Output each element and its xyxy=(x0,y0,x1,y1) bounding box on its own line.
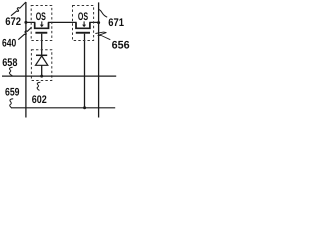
svg-text:671: 671 xyxy=(108,17,124,29)
leader line of 656 xyxy=(95,32,110,40)
background xyxy=(0,0,133,120)
diode D1 anode lead down to wire 658 xyxy=(41,65,43,76)
svg-text:658: 658 xyxy=(2,57,17,69)
leader line of 671 xyxy=(99,9,107,17)
transistor Q2 channel (thick notch) xyxy=(76,22,90,28)
svg-text:672: 672 xyxy=(5,16,21,28)
dashed box around transistor Q2 xyxy=(73,6,94,41)
wire: top horizontal wire with transistor notches xyxy=(26,22,99,28)
wire 659 (bottom horizontal) xyxy=(11,107,115,109)
diode D1 cathode bar xyxy=(36,54,47,56)
wire: left bus 640 (vertical) xyxy=(25,2,27,118)
transistor Q1 channel (thick notch) xyxy=(35,22,49,28)
break symbol on left bus top (leader of 672) xyxy=(11,2,26,16)
svg-text:602: 602 xyxy=(32,94,47,106)
junction dot: right bus / top wire xyxy=(97,21,100,24)
junction dot: Q2 gate lead / wire 659 xyxy=(83,106,86,109)
transistor Q2 gate bar xyxy=(76,32,90,34)
label OS arrow (right) xyxy=(83,21,85,25)
squiggle leader of 602 xyxy=(37,82,40,90)
diode D1 triangle xyxy=(36,56,48,65)
transistor Q1 gate lead down to diode xyxy=(41,34,43,56)
wire 658 (middle horizontal) xyxy=(2,75,116,77)
squiggle leader of 658 xyxy=(9,67,12,76)
transistor Q2 gate lead down to bottom wire xyxy=(84,34,86,108)
label OS arrow (left) xyxy=(41,21,43,25)
svg-text:OS: OS xyxy=(36,11,46,23)
dashed box around transistor Q1 xyxy=(31,6,52,41)
svg-text:656: 656 xyxy=(112,39,130,51)
squiggle leader of 659 xyxy=(10,99,13,108)
junction dot: left bus / top wire xyxy=(24,21,27,24)
svg-text:OS: OS xyxy=(78,11,88,23)
svg-text:659: 659 xyxy=(5,86,20,98)
wire: right bus 671 (vertical) xyxy=(98,2,100,117)
junction dot: diode lead / wire 658 xyxy=(40,75,43,78)
dashed box around diode 602 xyxy=(31,50,51,81)
svg-text:640: 640 xyxy=(2,37,16,49)
transistor Q1 gate bar xyxy=(35,32,47,34)
break symbol on left bus (leader of 640) xyxy=(18,27,31,39)
